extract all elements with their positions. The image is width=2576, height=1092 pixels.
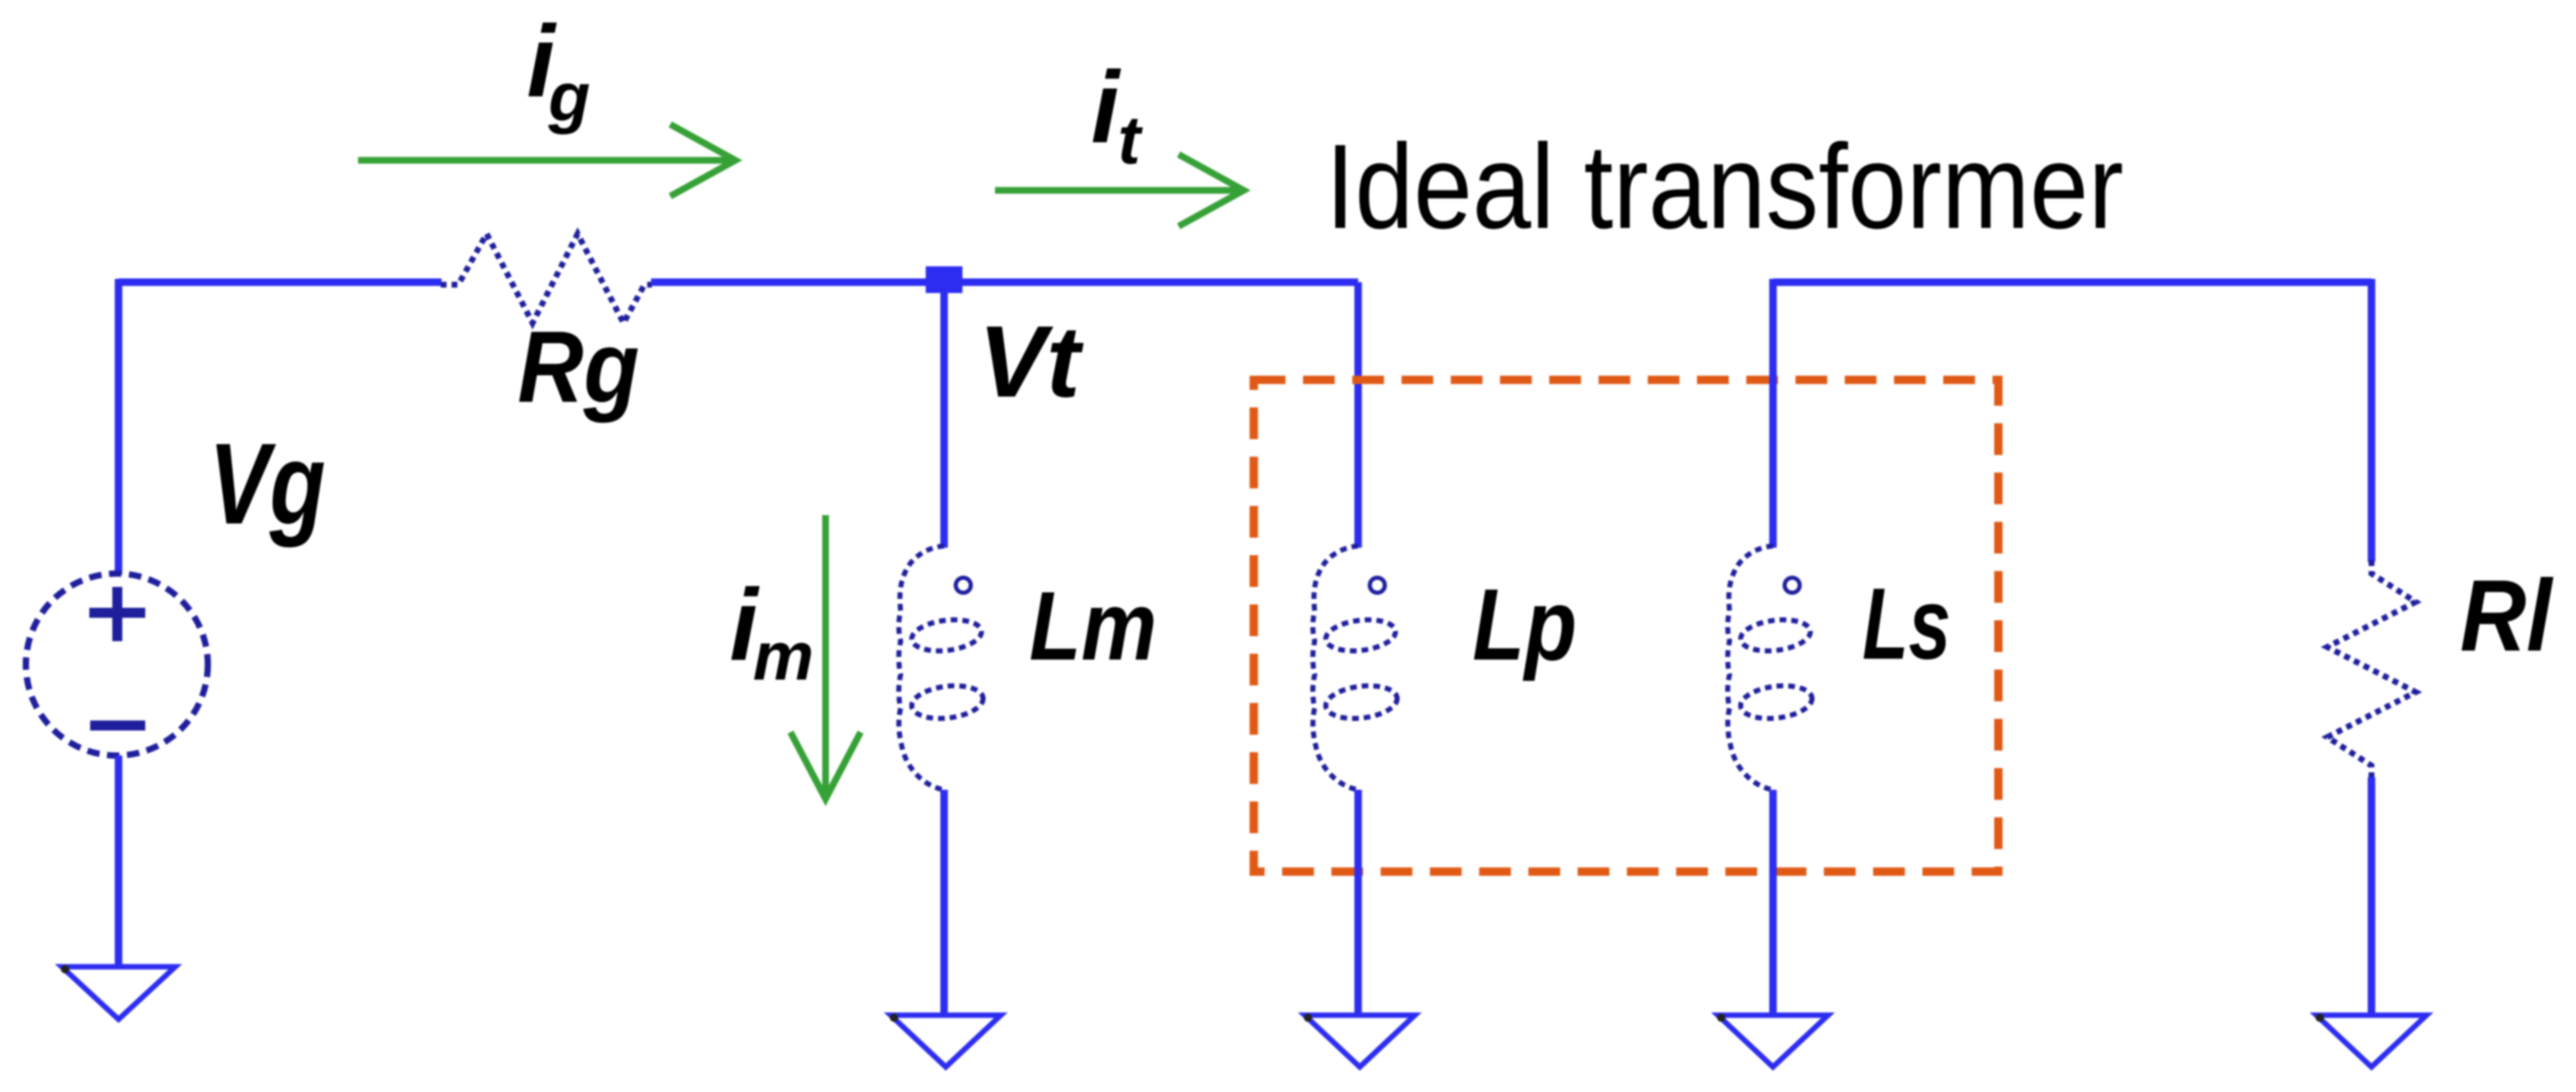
svg-text:i: i: [1091, 50, 1121, 164]
svg-text:Ideal transformer: Ideal transformer: [1326, 119, 2124, 254]
wire: Rl vertical top: [2368, 279, 2376, 562]
wire: Ls vertical from secondary wire: [1770, 279, 1777, 548]
current arrow it: [995, 154, 1244, 226]
resistor Rg: [441, 234, 652, 323]
ground (Lm): [890, 1014, 1001, 1067]
inductor Lp: [1313, 546, 1399, 790]
svg-text:Ls: Ls: [1862, 567, 1951, 680]
wire: top horizontal from Vg corner to resistor Rg: [119, 279, 442, 286]
inductor Ls: [1728, 546, 1814, 790]
resistor Rl: [2327, 560, 2416, 779]
ground (Ls): [1717, 1014, 1828, 1067]
wire: secondary top from Ls to Rl: [1773, 279, 2371, 286]
svg-text:Rg: Rg: [518, 310, 639, 423]
voltage source Vg circle: [26, 574, 208, 756]
wire: Lm bottom to ground: [941, 790, 948, 1015]
ground (Rl): [2316, 1014, 2427, 1067]
current arrow ig: [358, 124, 735, 196]
ground (Vg): [61, 965, 175, 1019]
node Vt junction square: [926, 266, 962, 293]
Vg minus terminal: [90, 720, 145, 731]
wire: left vertical from corner down to Vg source: [115, 279, 123, 574]
inductor Lm: [899, 546, 985, 790]
wire: Rl bottom to ground: [2368, 777, 2376, 1015]
Vg plus terminal: [89, 587, 145, 641]
svg-text:Rl: Rl: [2460, 559, 2553, 672]
ground (Lp): [1304, 1014, 1415, 1067]
wire: Ls bottom to ground: [1770, 790, 1777, 1015]
wire: Lp bottom to ground: [1355, 790, 1362, 1015]
transformer dashed box: [1254, 380, 1998, 872]
svg-text:Lp: Lp: [1472, 568, 1577, 681]
svg-text:m: m: [753, 619, 814, 695]
svg-text:Lm: Lm: [1029, 571, 1157, 680]
svg-text:g: g: [548, 59, 590, 135]
svg-text:Vt: Vt: [978, 305, 1083, 418]
svg-text:t: t: [1118, 103, 1144, 179]
svg-text:Vg: Vg: [209, 420, 326, 549]
wire: Vg bottom to ground: [115, 756, 123, 967]
wire: from Rg to Lp corner: [651, 279, 1358, 286]
wire: node Vt down to Lm: [941, 282, 948, 548]
wire: Lp vertical from top wire into transformer box: [1355, 282, 1362, 548]
current arrow im: [790, 515, 861, 799]
